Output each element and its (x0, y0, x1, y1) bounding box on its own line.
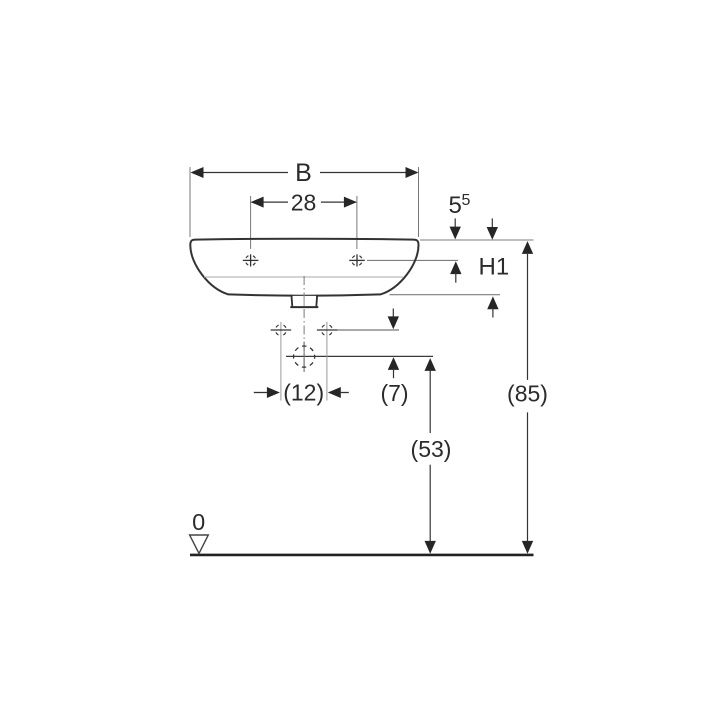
svg-text:5: 5 (449, 192, 462, 219)
svg-text:B: B (295, 159, 312, 187)
svg-text:(12): (12) (283, 380, 324, 406)
svg-text:(7): (7) (380, 380, 408, 406)
svg-text:(85): (85) (507, 381, 548, 407)
svg-text:28: 28 (291, 189, 317, 215)
svg-text:0: 0 (192, 509, 205, 535)
svg-text:5: 5 (462, 192, 471, 209)
svg-text:(53): (53) (411, 436, 452, 462)
svg-text:H1: H1 (479, 254, 510, 281)
